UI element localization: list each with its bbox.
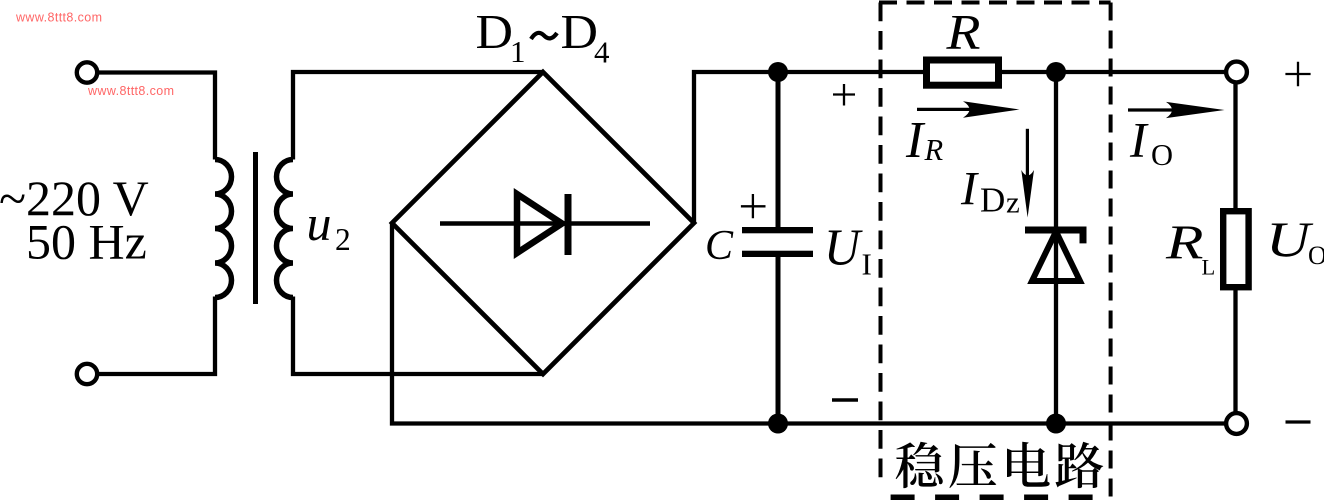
node junction dot capacitor bottom	[768, 414, 788, 434]
dashed box of regulator circuit top edge	[879, 1, 1111, 5]
svg-text:C: C	[705, 223, 734, 269]
zener diode Dz cathode bar with hook	[1025, 230, 1083, 243]
wire zener branch	[1054, 72, 1058, 424]
label text char 路	[1056, 442, 1104, 488]
transformer secondary winding u2	[277, 160, 294, 298]
svg-text:R: R	[924, 133, 944, 167]
wire output bottom	[1233, 290, 1237, 412]
wire bridge left vertex to bottom rail	[392, 223, 1226, 424]
label text char 压	[949, 443, 996, 488]
bridge inner diode lead	[440, 221, 650, 226]
wire output top	[1233, 83, 1237, 209]
node junction dot capacitor top	[768, 62, 788, 82]
svg-text:O: O	[1308, 241, 1324, 270]
svg-text:1: 1	[510, 34, 526, 69]
arrow current IO shaft	[1128, 108, 1180, 111]
svg-text:I: I	[1129, 112, 1149, 168]
svg-text:u: u	[307, 195, 332, 251]
node junction dot zener bottom	[1046, 414, 1066, 434]
svg-text:50 Hz: 50 Hz	[26, 214, 147, 270]
svg-text:2: 2	[335, 222, 351, 257]
arrow current IR shaft	[917, 108, 978, 111]
wire capacitor bottom lead	[776, 256, 781, 424]
label minus output	[1286, 420, 1311, 423]
svg-text:R: R	[945, 4, 980, 60]
wire capacitor top lead	[776, 72, 781, 228]
bridge inner diode triangle	[517, 194, 562, 253]
label plus capacitor	[741, 194, 766, 218]
svg-text:U: U	[1266, 211, 1314, 267]
svg-text:I: I	[905, 112, 926, 169]
transformer primary winding	[215, 160, 232, 298]
svg-text:O: O	[1151, 138, 1173, 172]
terminal output minus	[1226, 413, 1247, 434]
dashed box bottom edge	[891, 495, 1111, 500]
dashed box left edge	[879, 3, 883, 488]
bridge rectifier D1~D4 diamond	[392, 72, 694, 374]
svg-text:D: D	[476, 4, 514, 59]
arrow current IO head	[1166, 102, 1225, 118]
label plus input	[833, 84, 855, 106]
label plus output	[1285, 62, 1310, 86]
arrow current IR head	[963, 101, 1020, 117]
svg-text:D: D	[980, 181, 1005, 220]
capacitor C plate bottom	[742, 251, 813, 257]
svg-text:I: I	[960, 163, 979, 216]
transformer core	[253, 152, 258, 304]
svg-text:z: z	[1006, 185, 1020, 220]
svg-text:www.8ttt8.com: www.8ttt8.com	[87, 84, 174, 98]
terminal input top	[77, 62, 97, 82]
resistor R body	[927, 60, 999, 85]
capacitor C plate top	[742, 227, 813, 233]
label text char 稳	[896, 442, 943, 488]
svg-text:I: I	[862, 247, 872, 282]
zener diode Dz triangle	[1032, 232, 1080, 282]
svg-text:D: D	[561, 4, 599, 59]
wire top-left terminal to transformer primary	[97, 73, 215, 160]
label minus input	[832, 398, 858, 402]
arrow current IDz head	[1021, 170, 1034, 218]
dashed box right edge	[1109, 3, 1113, 500]
svg-text:R: R	[1165, 217, 1204, 270]
wire secondary top to bridge	[293, 72, 543, 160]
svg-text:U: U	[824, 220, 863, 277]
terminal input bottom	[77, 364, 97, 384]
resistor RL body	[1223, 211, 1248, 287]
svg-text:4: 4	[594, 35, 610, 70]
terminal output plus	[1226, 62, 1247, 83]
wire bottom-left terminal to transformer primary	[97, 297, 215, 375]
node junction dot zener top	[1046, 62, 1066, 82]
arrow current IDz shaft	[1026, 129, 1029, 183]
wire secondary bottom to bridge	[293, 297, 543, 375]
label text char 电	[1007, 442, 1050, 487]
svg-text:www.8ttt8.com: www.8ttt8.com	[15, 11, 102, 25]
svg-text:L: L	[1202, 255, 1216, 280]
wire top rail right of resistor R	[1002, 70, 1226, 74]
bridge inner diode cathode bar	[565, 194, 572, 255]
wire bridge right vertex to top rail	[694, 72, 923, 223]
